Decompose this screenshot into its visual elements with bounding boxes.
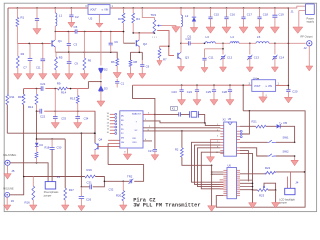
wire +12 to RF section vertical <box>287 8 289 43</box>
svg-text:R3: R3 <box>118 17 122 21</box>
wire emitter rail <box>55 52 117 58</box>
resistor R17 <box>64 139 66 188</box>
junction dots on +12V rail <box>17 7 19 9</box>
U5 left pin stubs <box>220 125 223 127</box>
resistor R25 reference <box>181 148 184 157</box>
capacitor C25 <box>213 85 215 89</box>
resistor R6 <box>116 59 119 67</box>
ground of Q4 <box>91 155 99 161</box>
connector J1 power supply box <box>306 4 315 15</box>
wire J2 to ground <box>308 46 310 66</box>
svg-text:R13: R13 <box>70 97 76 101</box>
wire crystal net <box>155 114 205 122</box>
wire regulator input/output stubs <box>84 7 114 9</box>
wire Q2 collector net <box>133 32 154 34</box>
svg-text:U4: U4 <box>253 76 257 80</box>
svg-text:TR2: TR2 <box>127 175 133 179</box>
svg-text:C19: C19 <box>279 13 285 17</box>
wire U3 data pins to U5 <box>143 121 220 126</box>
svg-text:C17: C17 <box>247 13 253 17</box>
U6 right pin stubs <box>237 169 241 171</box>
svg-text:X2: X2 <box>223 117 227 121</box>
svg-text:R21: R21 <box>252 120 258 124</box>
capacitor C11 shunt <box>202 58 206 60</box>
svg-text:J5: J5 <box>11 169 15 173</box>
resistor R4 <box>132 8 134 13</box>
ground of C13 <box>246 67 253 72</box>
wire varicap coupling <box>100 32 102 66</box>
svg-text:SW2: SW2 <box>283 149 290 153</box>
wire R19 net <box>81 177 104 182</box>
wire varactor drive to Q4 <box>94 111 96 143</box>
svg-text:D5: D5 <box>284 121 288 125</box>
wire U3 xtal cap leg <box>154 114 156 148</box>
svg-text:C5: C5 <box>74 25 78 29</box>
wire U5 gnd pin <box>211 140 221 157</box>
resistor R5 emitter <box>55 52 57 57</box>
wire C11 branch <box>205 43 224 57</box>
wire +12V top rail <box>8 7 288 9</box>
ground of C18 <box>255 27 264 33</box>
capacitor C27 <box>153 149 157 151</box>
capacitor C33 filter <box>54 111 56 116</box>
wire rail to TR1 <box>142 8 154 20</box>
capacitor C12 tuning filter <box>116 79 118 81</box>
wire R23 net <box>253 189 276 191</box>
svg-text:J6: J6 <box>11 199 15 203</box>
svg-text:D4: D4 <box>40 143 44 147</box>
trimmer capacitor C12 <box>221 57 225 59</box>
wire J6 ground <box>6 197 8 205</box>
ground of J6 <box>4 205 11 210</box>
wire op loop vertical <box>80 133 82 187</box>
svg-text:R23: R23 <box>259 193 265 197</box>
inductor L2 <box>180 8 182 15</box>
wire RF out vertical to C20 <box>287 43 289 89</box>
svg-text:U5: U5 <box>228 117 232 121</box>
wire Q1 collector <box>54 32 56 41</box>
svg-text:J4: J4 <box>295 181 299 185</box>
svg-text:C30: C30 <box>57 146 62 150</box>
resistor R3 <box>123 8 125 13</box>
svg-text:L4: L4 <box>231 35 235 39</box>
resistor R15 <box>35 152 38 158</box>
svg-text:R9: R9 <box>57 82 61 86</box>
svg-text:R20: R20 <box>116 194 122 198</box>
ground of C26 <box>78 206 85 211</box>
svg-text:C9: C9 <box>75 62 79 66</box>
ground of SW2 <box>291 160 299 165</box>
wire U6 data wires from bundle <box>220 180 224 189</box>
ground of C24 <box>193 100 201 106</box>
wire Q4 collector node <box>94 132 96 134</box>
wire U6 left pin wires <box>212 172 224 174</box>
IC U6 display driver <box>227 168 237 199</box>
wire C23 link <box>54 89 56 112</box>
svg-text:C11: C11 <box>209 56 214 60</box>
svg-text:C16: C16 <box>230 13 236 17</box>
resistor R19 <box>85 175 95 178</box>
wire C26 top <box>80 187 82 196</box>
svg-text:R19: R19 <box>87 168 93 172</box>
ground of C1 <box>33 29 41 35</box>
svg-text:U2: U2 <box>89 17 93 21</box>
svg-text:C9: C9 <box>146 65 150 69</box>
wire oscillator collector net <box>55 31 123 33</box>
svg-text:jumper: jumper <box>43 194 52 197</box>
resistor R2 <box>17 43 19 56</box>
svg-text:11: 11 <box>107 129 110 131</box>
svg-text:VOUT: VOUT <box>90 9 97 12</box>
svg-text:C26: C26 <box>86 198 92 202</box>
svg-text:J1: J1 <box>291 10 295 14</box>
capacitor C26 electrolytic <box>79 196 84 198</box>
svg-text:C24: C24 <box>187 90 193 94</box>
ground of C9b <box>65 74 73 80</box>
wire SW1 line <box>240 141 295 143</box>
ground of C11 <box>39 74 47 80</box>
capacitor C28 <box>229 85 231 89</box>
ground of D3 <box>97 101 105 107</box>
ground of Q3 emitter <box>178 67 185 72</box>
svg-text:J2: J2 <box>304 46 308 50</box>
svg-text:R5: R5 <box>59 56 63 60</box>
switch SW1 <box>268 140 276 143</box>
svg-text:Q3: Q3 <box>185 56 189 60</box>
svg-text:R1: R1 <box>20 16 24 20</box>
resistor R7 Q3 base bias <box>159 46 161 48</box>
wire U5 bottom-left routing <box>201 152 223 189</box>
wire Q4 emitter <box>94 150 96 155</box>
wire R11 to audio net <box>6 105 8 134</box>
svg-text:VIN: VIN <box>104 9 108 12</box>
svg-text:PD: PD <box>121 129 124 131</box>
svg-text:R4: R4 <box>136 17 140 21</box>
ground of R6 <box>113 73 121 79</box>
svg-text:1 1 1: 1 1 1 <box>152 37 158 39</box>
wire +V bus <box>133 84 252 86</box>
ground of R6b <box>80 74 88 80</box>
ground of R16 <box>30 205 38 210</box>
IC U4 voltage regulator 78L05 <box>252 80 276 92</box>
transistor Q2 <box>135 40 137 46</box>
svg-text:16: 16 <box>107 113 110 115</box>
capacitor C20 <box>286 90 290 92</box>
svg-text:RFII: RFII <box>133 142 137 144</box>
svg-text:C13: C13 <box>254 56 260 60</box>
capacitor C1 <box>36 8 38 19</box>
wire tuning voltage from loop filter <box>87 82 89 89</box>
capacitor C23 bus decoupling <box>181 85 183 89</box>
wire SW2 to ground <box>294 156 296 160</box>
ground of U6 branch <box>208 206 216 212</box>
wire RB0 to LED <box>240 125 276 127</box>
ground of C16 <box>222 27 231 33</box>
wire RF line <box>181 42 306 44</box>
connector J2 RF output <box>307 41 312 46</box>
ground of R8 <box>127 74 134 79</box>
wire TR1 bottom to Q3 base <box>157 31 174 56</box>
wire TR1 wiper to ground <box>162 25 176 28</box>
svg-text:C20: C20 <box>292 90 298 94</box>
ground of U3 <box>123 154 131 160</box>
svg-text:14: 14 <box>107 119 110 121</box>
svg-text:Q2: Q2 <box>143 42 147 46</box>
svg-text:R14: R14 <box>61 91 67 95</box>
zener diode D1 <box>193 8 195 17</box>
capacitor C2 <box>70 8 72 15</box>
wire U4 ground <box>262 91 264 96</box>
svg-text:R6: R6 <box>111 60 115 64</box>
ground for power minus <box>293 27 303 33</box>
trimmer capacitor C13 <box>249 43 251 54</box>
resistor R20 <box>122 181 124 190</box>
wire bus corner to U3 <box>133 85 155 114</box>
wire Q4 base to U3 <box>98 145 120 147</box>
wire U4 VIN <box>276 84 289 86</box>
svg-text:C1: C1 <box>121 82 125 86</box>
ground of C17 <box>239 27 248 33</box>
svg-text:C34: C34 <box>84 117 89 121</box>
capacitor C24 <box>196 85 198 89</box>
svg-text:G: G <box>124 151 126 153</box>
capacitor C21 series <box>41 86 43 91</box>
ground of R2 <box>14 74 22 80</box>
capacitor C34 filter <box>77 111 79 116</box>
IC U5 microcontroller <box>224 122 237 156</box>
wire Q3 collector <box>180 43 182 52</box>
capacitor C16 <box>226 8 228 17</box>
ground of C2 <box>68 22 75 27</box>
capacitor C9b emitter bypass <box>68 52 70 62</box>
transistor Q1 <box>51 40 53 46</box>
resistor R6b <box>83 52 85 58</box>
svg-text:MIC/LINE: MIC/LINE <box>3 187 14 190</box>
capacitor C29 series <box>179 112 181 116</box>
wire +5 branch to U5 pin <box>242 111 249 134</box>
wire Q1 base net <box>17 42 50 44</box>
svg-text:RF Output: RF Output <box>301 35 313 39</box>
ground of C12 <box>220 67 227 72</box>
U3 left pin bubbles <box>115 113 117 115</box>
svg-text:D2: D2 <box>104 68 108 72</box>
capacitor C31 series <box>90 184 92 189</box>
svg-text:C11: C11 <box>36 66 41 70</box>
trimmer TR1 potentiometer <box>153 20 156 33</box>
U6 left pin stubs <box>223 169 227 171</box>
inductor L3 <box>205 42 215 44</box>
svg-text:TR1: TR1 <box>151 13 157 17</box>
svg-text:MC: MC <box>121 116 125 118</box>
svg-text:R6: R6 <box>88 59 92 63</box>
wire mod net <box>104 165 143 182</box>
svg-text:R8: R8 <box>134 60 138 64</box>
svg-text:C3: C3 <box>74 42 78 46</box>
svg-text:R16: R16 <box>25 200 31 204</box>
svg-text:C31: C31 <box>87 180 93 184</box>
svg-text:5: 5 <box>217 135 218 137</box>
ground of R23 <box>272 203 280 209</box>
inductor L5 <box>256 42 269 44</box>
svg-text:C23: C23 <box>172 90 178 94</box>
ground of C14 <box>271 67 278 72</box>
connector J5 audio input <box>5 160 10 165</box>
wire audio bus <box>7 132 95 134</box>
ground of C9 <box>139 74 146 79</box>
ground of C7 <box>26 74 34 80</box>
wire U5 pins down right <box>240 151 248 182</box>
transistor Q4 <box>97 143 99 149</box>
ground of C23 <box>178 100 186 106</box>
wire U4 VOUT to +5 rail <box>242 85 244 111</box>
svg-text:C14: C14 <box>279 56 285 60</box>
svg-text:R18: R18 <box>45 146 50 150</box>
svg-text:R2: R2 <box>21 52 25 56</box>
svg-text:R2: R2 <box>175 148 179 152</box>
wire loop filter left leg <box>23 89 25 95</box>
svg-text:BAL/UNBAL: BAL/UNBAL <box>3 154 17 157</box>
ground of C19 <box>270 27 279 33</box>
wire U2 ground pin <box>98 14 100 22</box>
connector J6 mic input <box>5 192 10 197</box>
ground of U2 <box>96 23 103 27</box>
varicap diode D2 <box>99 68 103 73</box>
wire audio input net <box>10 163 48 182</box>
svg-text:J3: J3 <box>57 175 61 179</box>
ground of R17 <box>62 205 70 210</box>
wire C31 net <box>81 181 104 187</box>
switch SW2 <box>268 154 276 157</box>
svg-text:R7: R7 <box>163 58 167 62</box>
svg-text:13: 13 <box>107 122 110 124</box>
wire R23 loop <box>264 183 276 190</box>
resistor R10 <box>22 94 25 104</box>
capacitor C18 <box>259 8 261 17</box>
svg-text:L5: L5 <box>257 35 261 39</box>
wire Q2 emitter <box>138 46 140 52</box>
ground of C20 <box>284 97 292 103</box>
ground of TR1 wiper <box>172 27 180 33</box>
wire J5 ground <box>7 166 9 174</box>
svg-text:jumper: jumper <box>278 202 287 205</box>
svg-text:L2: L2 <box>185 14 189 18</box>
svg-text:C7: C7 <box>23 66 27 70</box>
crystal X1 <box>191 112 197 118</box>
capacitor C5 series <box>75 29 77 33</box>
svg-text:C32: C32 <box>109 188 114 192</box>
svg-text:Q4: Q4 <box>99 138 103 142</box>
ground of U4 <box>259 97 267 103</box>
svg-text:D3: D3 <box>104 87 108 91</box>
trimmer TR2 <box>130 179 132 183</box>
trimmer capacitor C14 <box>274 43 276 54</box>
label X1 boxed <box>171 106 177 110</box>
inductor L1 <box>54 8 56 13</box>
wire R15 top link <box>36 111 38 139</box>
svg-text:RFI: RFI <box>133 138 137 140</box>
ground of C11 <box>201 68 208 73</box>
ground of C33 <box>51 123 59 129</box>
svg-text:U6: U6 <box>228 163 232 167</box>
svg-text:1: 1 <box>278 82 280 85</box>
wire mic net <box>10 177 24 195</box>
svg-text:C33: C33 <box>61 117 66 121</box>
svg-text:G: G <box>102 10 104 12</box>
svg-text:L3: L3 <box>206 35 210 39</box>
wire preemphasis feed <box>37 138 66 140</box>
ground of R20 <box>120 205 128 210</box>
svg-text:PC: PC <box>121 133 124 135</box>
ground of D1 <box>190 28 198 33</box>
svg-text:C18: C18 <box>263 13 269 17</box>
wire LED return <box>280 126 294 142</box>
wire loop reference branch <box>181 130 183 132</box>
wire C22 net <box>37 110 96 112</box>
resistor R23 <box>258 189 269 192</box>
wire jumper feeds <box>287 172 290 188</box>
resistor R16 <box>32 177 34 187</box>
IC U3 PLL SAA1057 <box>120 111 143 148</box>
svg-text:C21: C21 <box>40 82 46 86</box>
wire U6 ground branch <box>211 165 213 205</box>
wire U3 pin XTAL net <box>143 113 155 115</box>
wire left supply bus <box>7 8 9 94</box>
capacitor C30 series <box>51 139 53 147</box>
IC U2 voltage regulator box <box>88 5 110 15</box>
svg-text:C27: C27 <box>148 149 153 153</box>
capacitor C11 base bypass 2 <box>42 43 44 59</box>
svg-text:C2: C2 <box>75 15 79 19</box>
jumper J4 block <box>285 188 295 194</box>
ground of R7 <box>157 61 162 66</box>
resistor R13 <box>77 89 79 96</box>
svg-text:VOUT: VOUT <box>254 85 261 88</box>
capacitor C17 <box>243 8 245 17</box>
svg-text:SAA1057: SAA1057 <box>132 113 142 116</box>
ground of C28 <box>226 100 234 106</box>
svg-text:1: 1 <box>217 124 218 126</box>
svg-text:3W PLL FM Transmitter: 3W PLL FM Transmitter <box>133 203 200 209</box>
svg-text:SC: SC <box>135 130 138 132</box>
varicap diode D3 <box>100 82 102 87</box>
capacitor C10 coupling <box>188 41 190 45</box>
capacitor C7 electrolytic base bypass <box>29 43 31 58</box>
svg-text:R17: R17 <box>69 188 75 192</box>
wire tuning voltage node <box>88 81 101 83</box>
preset R24 <box>263 186 265 188</box>
ground of C25 <box>210 100 218 106</box>
ground of U5 <box>207 157 215 163</box>
wire SW2 line <box>240 148 295 156</box>
wire U5 pin to bundle <box>192 142 224 182</box>
wire Q2 collector lead <box>138 33 140 40</box>
ground of C15 <box>206 27 215 33</box>
svg-text:C22: C22 <box>40 115 46 119</box>
svg-text:C28: C28 <box>222 90 228 94</box>
ground of J2 <box>306 66 313 71</box>
svg-text:G: G <box>265 86 267 88</box>
diode D4 <box>35 143 39 147</box>
wire R23 to ground <box>275 190 277 202</box>
svg-text:15: 15 <box>107 116 110 118</box>
wire U6 right vertical <box>252 180 254 202</box>
resistor R11 <box>6 94 9 104</box>
wire U3 ground pin <box>127 148 129 154</box>
wire C5 node to emitter rail <box>83 32 85 53</box>
transistor Q3 <box>177 53 179 59</box>
inductor L4 <box>230 42 239 44</box>
capacitor C9 <box>141 60 143 65</box>
